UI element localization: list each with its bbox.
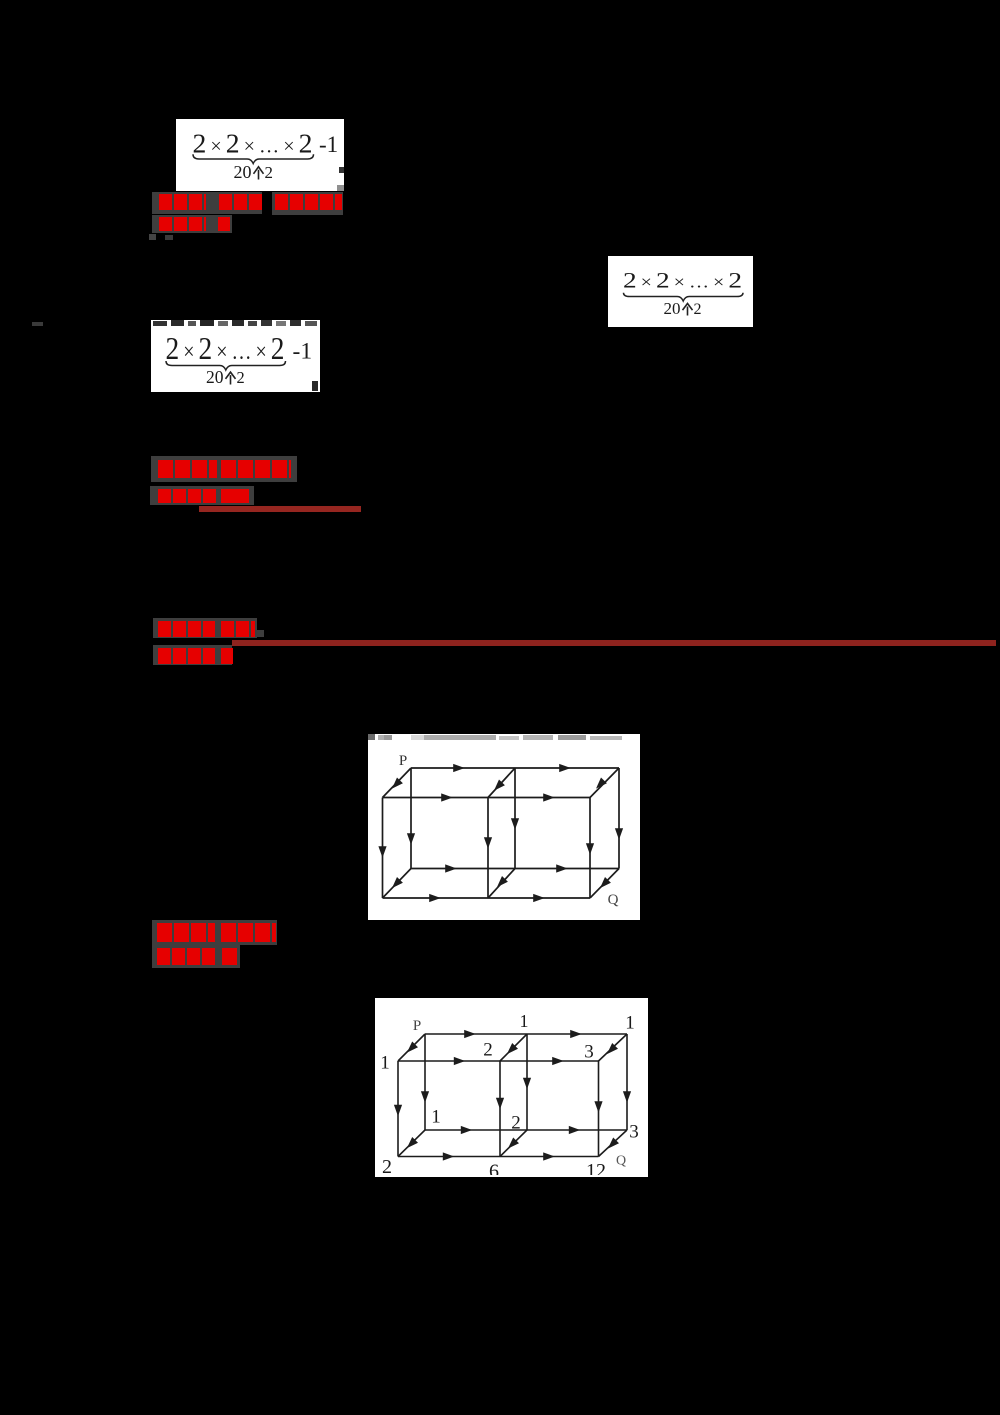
- svg-text:2: 2: [694, 301, 702, 318]
- svg-text:2: 2: [483, 1039, 493, 1060]
- svg-text:3: 3: [584, 1041, 594, 1062]
- svg-text:Q: Q: [616, 1154, 626, 1169]
- svg-text:20: 20: [206, 367, 224, 387]
- svg-text:1: 1: [520, 1011, 529, 1031]
- svg-text:2: 2: [511, 1112, 521, 1133]
- svg-text:1: 1: [431, 1106, 441, 1127]
- svg-text:Q: Q: [608, 892, 619, 908]
- svg-text:P: P: [413, 1018, 421, 1034]
- svg-text:2 × 2 × … × 2: 2 × 2 × … × 2: [193, 128, 313, 159]
- svg-text:2: 2: [237, 368, 245, 387]
- svg-text:6: 6: [489, 1161, 499, 1175]
- svg-text:2: 2: [382, 1156, 392, 1175]
- svg-text:1: 1: [380, 1052, 390, 1073]
- svg-text:P: P: [399, 753, 407, 769]
- svg-text:2 × 2 × … × 2: 2 × 2 × … × 2: [623, 268, 742, 293]
- svg-text:-1: -1: [319, 132, 338, 157]
- svg-text:20: 20: [234, 162, 252, 182]
- svg-text:2 × 2 × … × 2: 2 × 2 × … × 2: [166, 331, 285, 366]
- svg-text:20: 20: [664, 299, 681, 318]
- svg-text:12: 12: [586, 1160, 606, 1175]
- svg-text:-1: -1: [293, 339, 313, 365]
- svg-text:1: 1: [625, 1012, 635, 1033]
- svg-text:2: 2: [265, 163, 273, 182]
- svg-text:3: 3: [629, 1121, 639, 1142]
